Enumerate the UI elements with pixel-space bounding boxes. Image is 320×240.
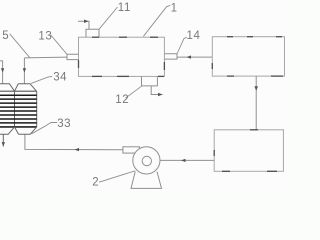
svg-text:13: 13	[38, 30, 52, 42]
svg-text:12: 12	[115, 94, 129, 106]
svg-text:14: 14	[187, 30, 201, 42]
svg-text:34: 34	[53, 71, 67, 83]
svg-text:5: 5	[2, 30, 9, 42]
svg-text:2: 2	[92, 176, 99, 188]
svg-text:1: 1	[171, 2, 178, 14]
svg-text:11: 11	[118, 2, 131, 14]
svg-text:33: 33	[57, 118, 71, 130]
